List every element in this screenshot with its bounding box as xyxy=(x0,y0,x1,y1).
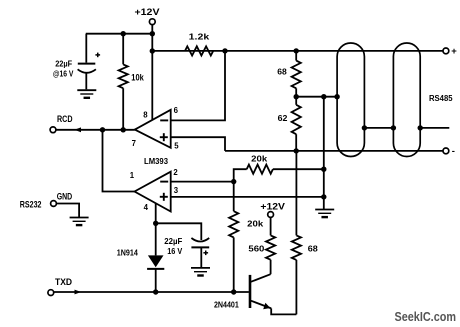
svg-text:@16 V: @16 V xyxy=(53,69,74,79)
wire U1a output up to RCD node xyxy=(103,130,135,192)
wire TXD line xyxy=(54,291,249,293)
node RCD / U1a output branch xyxy=(100,127,105,132)
wire loop1-loop2 crossover xyxy=(364,127,393,129)
node 62 bottom / - line xyxy=(294,148,299,153)
svg-text:RCD: RCD xyxy=(57,114,73,124)
wire pin 2 input xyxy=(171,181,234,183)
svg-text:20k: 20k xyxy=(247,218,263,228)
wire - line (pin5 to RS485-) xyxy=(225,150,443,152)
wire ground line xyxy=(323,97,325,210)
diode D1 1N914 xyxy=(155,223,157,255)
svg-text:68: 68 xyxy=(308,244,318,254)
svg-text:+12V: +12V xyxy=(260,202,285,212)
node 1.2k junction xyxy=(150,48,155,53)
resistor R1 10k xyxy=(122,34,124,65)
wire +12V rail down to U1 pin 8 xyxy=(151,25,153,120)
wire +12V rail to C1 xyxy=(86,33,153,35)
svg-text:+: + xyxy=(451,46,457,57)
node RCD / 10k bottom xyxy=(121,127,126,132)
node 20k right xyxy=(321,167,326,172)
terminal GND (RS232) xyxy=(51,201,57,207)
resistor R4 62 xyxy=(292,105,301,134)
wire crossover stub xyxy=(420,127,449,129)
svg-text:5: 5 xyxy=(174,141,179,150)
svg-text:22µF: 22µF xyxy=(164,236,182,246)
node bias/ground branch xyxy=(321,94,326,99)
svg-text:22µF: 22µF xyxy=(55,58,72,68)
node top rail / pin6 branch xyxy=(222,48,227,53)
ground (bias network) xyxy=(315,209,334,211)
node 10k top xyxy=(121,31,126,36)
wire pin 3 input xyxy=(171,196,324,198)
svg-text:TXD: TXD xyxy=(55,277,72,287)
terminal TXD xyxy=(48,290,54,296)
node pin3 / ground line xyxy=(321,194,326,199)
node pin2 / 20k junction xyxy=(231,179,236,184)
terminal RS485 + xyxy=(443,48,449,54)
op-amp U1b LM393 (pins 5,6,7,8) xyxy=(135,110,171,148)
ground (C2) xyxy=(191,267,210,269)
svg-text:+12V: +12V xyxy=(135,7,160,17)
svg-text:16 V: 16 V xyxy=(167,246,182,256)
svg-text:RS232: RS232 xyxy=(20,199,42,209)
resistor R7 560 xyxy=(270,217,272,235)
node loop2 left xyxy=(391,125,396,130)
ground (C1) xyxy=(77,89,96,91)
wire GND terminal to ground xyxy=(56,204,79,218)
svg-text:10k: 10k xyxy=(131,72,144,82)
terminal RS485 - xyxy=(443,148,449,154)
svg-text:1.2k: 1.2k xyxy=(189,31,210,41)
op-amp U1a LM393 (pins 1,2,3,4) xyxy=(135,172,171,212)
resistor R8 68 (bottom) xyxy=(295,151,297,236)
resistor R5 20k (horizontal) xyxy=(234,169,247,181)
node twisted pair left edge xyxy=(334,94,339,99)
resistor R2 1.2k xyxy=(185,46,213,55)
arrow RCD (points left) xyxy=(74,127,81,132)
svg-text:-: - xyxy=(452,146,455,157)
svg-text:LM393: LM393 xyxy=(144,156,168,166)
transistor Q1 2N4401 xyxy=(249,275,252,308)
ground (RS232 GND) xyxy=(70,217,89,219)
wire pin 6 input xyxy=(171,51,225,121)
wire pin4 node to C2 xyxy=(156,223,202,240)
resistor R6 20k (vertical) xyxy=(233,182,235,212)
svg-text:62: 62 xyxy=(278,113,288,123)
svg-text:1: 1 xyxy=(130,171,135,180)
svg-text:3: 3 xyxy=(174,186,179,195)
svg-text:560: 560 xyxy=(248,244,264,254)
svg-text:SeekIC.com: SeekIC.com xyxy=(395,310,457,324)
svg-text:4: 4 xyxy=(144,203,149,212)
wire pin 4 xyxy=(155,203,157,223)
node 68/62 junction xyxy=(294,94,299,99)
svg-text:8: 8 xyxy=(143,111,148,120)
svg-text:RS485: RS485 xyxy=(429,93,453,103)
twisted pair loop 1 xyxy=(337,43,364,157)
node TXD / 20k bottom xyxy=(231,289,236,294)
svg-text:20k: 20k xyxy=(251,153,267,163)
wire pin 5 input xyxy=(171,137,225,151)
node loop1 right xyxy=(362,125,367,130)
svg-text:2: 2 xyxy=(173,168,178,177)
svg-text:1N914: 1N914 xyxy=(117,247,138,257)
node TXD / D1 cathode xyxy=(153,289,158,294)
terminal +12V (driver) xyxy=(268,212,274,218)
svg-text:68: 68 xyxy=(277,66,287,76)
capacitor C1 22uF @16V xyxy=(85,34,87,63)
terminal +12V (top) xyxy=(149,19,155,25)
twisted pair loop 2 xyxy=(393,43,420,157)
terminal RCD xyxy=(50,127,56,133)
svg-text:GND: GND xyxy=(57,192,72,202)
wire RCD output xyxy=(56,129,135,131)
node loop2 right xyxy=(418,125,423,130)
node +12V/cap branch xyxy=(150,31,155,36)
svg-text:6: 6 xyxy=(174,106,179,115)
resistor R3 68 (top) xyxy=(295,51,297,61)
capacitor C2 22uF 16V xyxy=(191,238,209,242)
wire top rail (+ line) xyxy=(152,50,443,52)
svg-text:7: 7 xyxy=(132,139,136,148)
node top rail / 68 top xyxy=(294,48,299,53)
svg-text:2N4401: 2N4401 xyxy=(214,300,239,310)
node pin4 / D1 / C2 xyxy=(153,221,158,226)
arrow TXD (points right) xyxy=(75,290,82,295)
wire 68/62 junction to twisted pair xyxy=(296,96,337,98)
